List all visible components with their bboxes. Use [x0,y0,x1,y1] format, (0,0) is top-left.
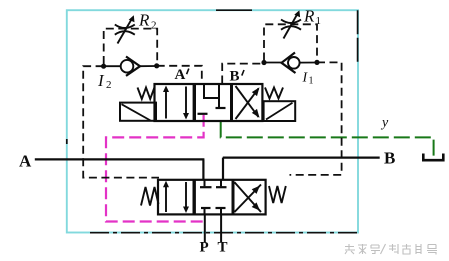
svg-text:R: R [138,11,150,30]
svg-text:1: 1 [309,76,314,87]
svg-text:2: 2 [106,79,112,91]
svg-text:T: T [218,240,228,256]
svg-text:1: 1 [316,15,322,27]
svg-text:2: 2 [151,20,157,32]
svg-text:R: R [303,7,315,26]
svg-text:B: B [230,69,240,85]
svg-text:I: I [302,71,309,86]
svg-text:A: A [175,67,186,83]
svg-text:A: A [19,152,32,171]
svg-text:I: I [97,71,105,90]
svg-text:y: y [380,116,389,131]
svg-text:P: P [200,240,209,256]
svg-text:B: B [384,149,395,168]
